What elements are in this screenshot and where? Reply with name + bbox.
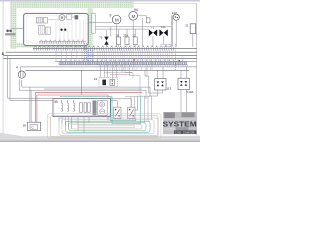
relay K3 [45, 27, 50, 34]
coil L1 [62, 100, 63, 111]
valve Y2 [149, 29, 153, 36]
fuse 28 [117, 37, 121, 45]
valve-block 113 [155, 79, 166, 90]
svg-text:102: 102 [172, 11, 177, 15]
node watermark-SYSTEM [163, 112, 197, 134]
wire [19, 67, 22, 90]
component 44b [110, 79, 115, 85]
node red-marks [133, 59, 135, 61]
svg-text:90: 90 [54, 100, 58, 104]
node strip1-end-blocks [161, 44, 171, 47]
wire green-drop [88, 117, 90, 123]
ground [0, 133, 200, 141]
node test-points [60, 29, 62, 31]
svg-text:28: 28 [23, 124, 27, 128]
svg-text:Y2: Y2 [151, 25, 155, 29]
wire [20, 66, 196, 68]
component 79 [104, 37, 108, 41]
node terminal-strip-2 [55, 60, 197, 62]
valve 10A [159, 29, 163, 36]
component capacitor-of-94 [146, 18, 150, 23]
coil L2 [68, 100, 69, 111]
fuse 22 [133, 37, 137, 45]
node terminal-strip-1 [33, 48, 197, 50]
switch 102 [173, 14, 179, 20]
switch S2 [128, 107, 135, 118]
wire [26, 69, 189, 71]
coil L3 [74, 100, 75, 111]
wire [3, 2, 4, 134]
wire [133, 2, 197, 4]
fuse 25A [125, 37, 129, 45]
wire [196, 3, 198, 135]
wire [111, 96, 138, 110]
wire [0, 0, 200, 2]
svg-text:25A: 25A [123, 34, 128, 38]
wire blue-bundle-left [84, 43, 93, 62]
relay K2 [39, 25, 45, 34]
component F1 [92, 13, 95, 33]
wire harness-loops [48, 114, 161, 139]
svg-text:79: 79 [99, 36, 103, 40]
node board-terminals [40, 41, 84, 43]
wire staircase [125, 65, 152, 96]
wire riser-group [125, 96, 152, 123]
wire [59, 117, 84, 133]
wire [56, 50, 172, 61]
wire [12, 27, 24, 29]
buzzer M [59, 15, 65, 21]
motor M94 [129, 12, 138, 21]
wire pink [110, 74, 130, 76]
svg-text:44: 44 [94, 77, 98, 81]
wire [145, 67, 186, 112]
svg-text:22: 22 [132, 34, 136, 38]
component board-top-right [67, 15, 72, 20]
component 90-heatsink [92, 100, 96, 115]
component 44a [102, 80, 106, 86]
wire red [36, 71, 142, 123]
svg-text:Y13A: Y13A [186, 90, 193, 94]
wire [100, 65, 188, 70]
node brand-label [6, 30, 9, 33]
wire [56, 20, 84, 41]
switch S1 [114, 107, 121, 118]
svg-text:M: M [115, 18, 119, 23]
wire [100, 64, 122, 79]
svg-text:21: 21 [185, 24, 189, 28]
wire blue-dashed-right [175, 44, 177, 70]
svg-text:COD. 210622B: COD. 210622B [175, 130, 195, 134]
component 21 [190, 24, 195, 34]
wire [30, 87, 31, 122]
wire [104, 71, 132, 73]
valve-block Y13A [178, 78, 189, 89]
wire [48, 19, 59, 21]
svg-text:9: 9 [110, 14, 112, 18]
wire [19, 87, 150, 99]
wire [89, 15, 193, 47]
component 90-indicators [98, 100, 108, 115]
wire [8, 56, 53, 101]
wire [3, 52, 196, 58]
node green-dotted-zone [10, 2, 134, 49]
motor M9 [112, 15, 121, 24]
component 90-contacts [79, 103, 90, 112]
wire teal [60, 96, 141, 123]
svg-text:M: M [132, 14, 136, 19]
svg-text:94: 94 [134, 8, 138, 12]
svg-text:4: 4 [16, 65, 18, 69]
relay K1 [36, 18, 42, 23]
box control-board [24, 13, 89, 45]
module 90 [53, 99, 111, 117]
svg-text:113: 113 [166, 87, 171, 91]
